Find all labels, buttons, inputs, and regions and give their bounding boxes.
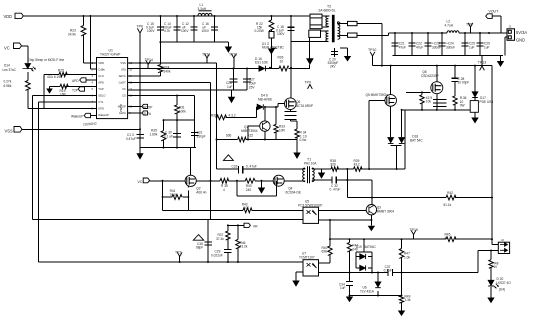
svg-text:1uF: 1uF <box>469 45 475 49</box>
svg-text:0.20W: 0.20W <box>255 29 264 33</box>
svg-text:VC: VC <box>4 46 10 51</box>
svg-text:0W: 0W <box>460 104 465 108</box>
svg-text:4: 4 <box>92 80 94 84</box>
svg-text:330uF: 330uF <box>446 45 455 49</box>
svg-text:PA2 10A: PA2 10A <box>304 161 317 165</box>
svg-text:1uF: 1uF <box>227 85 233 89</box>
svg-text:CS: CS <box>122 94 126 98</box>
svg-text:PDE US4: PDE US4 <box>480 100 494 104</box>
svg-text:MMBT 3904: MMBT 3904 <box>377 209 395 213</box>
svg-text:51.1k: 51.1k <box>443 203 451 207</box>
svg-text:100k: 100k <box>179 110 186 114</box>
svg-text:VC: VC <box>138 180 143 184</box>
svg-text:MB-AVDE: MB-AVDE <box>258 97 272 101</box>
svg-text:1.0k: 1.0k <box>404 255 410 259</box>
svg-text:100V: 100V <box>202 29 210 33</box>
svg-text:25V: 25V <box>249 86 256 90</box>
svg-text:698: 698 <box>322 250 328 254</box>
svg-text:BAT 54C: BAT 54C <box>410 138 423 142</box>
svg-text:TP15: TP15 <box>410 228 418 232</box>
svg-text:10: 10 <box>280 60 284 64</box>
svg-text:240: 240 <box>246 188 252 192</box>
svg-text:4.7k: 4.7k <box>164 29 170 33</box>
svg-text:TP10: TP10 <box>368 48 376 52</box>
svg-text:5: 5 <box>92 87 94 91</box>
svg-text:46.4: 46.4 <box>445 236 451 240</box>
svg-text:100: 100 <box>244 206 250 210</box>
svg-text:R25: R25 <box>58 69 64 73</box>
svg-text:GLPA: GLPA <box>143 112 152 116</box>
svg-text:820: 820 <box>331 163 337 167</box>
svg-text:GLPA: GLPA <box>119 111 126 115</box>
svg-text:21EBO42: 21EBO42 <box>83 122 97 127</box>
svg-text:CLO: CLO <box>98 74 104 78</box>
svg-text:5V/3A: 5V/3A <box>516 30 527 35</box>
svg-text:1uF: 1uF <box>484 45 490 49</box>
svg-text:14: 14 <box>129 74 132 78</box>
svg-text:MMBT3904: MMBT3904 <box>241 129 258 133</box>
svg-text:636: 636 <box>226 134 232 138</box>
svg-text:16: 16 <box>129 61 132 65</box>
svg-text:GND: GND <box>516 38 525 43</box>
svg-text:140k: 140k <box>164 70 171 74</box>
svg-text:37.4k: 37.4k <box>216 237 224 241</box>
svg-text:16B: 16B <box>60 92 66 96</box>
svg-text:PC3 57W21002F: PC3 57W21002F <box>298 203 323 207</box>
svg-text:Chip-Sleep or MOD-F line: Chip-Sleep or MOD-F line <box>28 58 65 62</box>
svg-text:TCMT1107: TCMT1107 <box>299 255 315 259</box>
svg-text:4 3.2: 4 3.2 <box>229 113 236 117</box>
svg-text:47uF: 47uF <box>416 45 423 49</box>
svg-text:15: 15 <box>129 67 132 71</box>
svg-text:76.8k: 76.8k <box>170 193 178 197</box>
svg-text:D19: D19 <box>356 245 362 249</box>
svg-text:X22: X22 <box>248 134 254 138</box>
svg-text:TP6: TP6 <box>137 25 143 29</box>
svg-text:MUR 460CT8C: MUR 460CT8C <box>262 46 284 50</box>
svg-text:WakeUP: WakeUP <box>71 115 83 119</box>
svg-text:TP8: TP8 <box>466 22 472 26</box>
svg-text:0.27k: 0.27k <box>4 80 12 84</box>
svg-text:UPD: UPD <box>98 107 104 111</box>
svg-text:43.k 6.19k: 43.k 6.19k <box>47 75 62 79</box>
svg-text:WakeUP: WakeUP <box>98 113 109 117</box>
svg-text:T2P: T2P <box>72 89 78 93</box>
svg-text:CaOT: CaOT <box>119 81 127 85</box>
svg-text:VR: VR <box>253 225 258 229</box>
svg-text:TP13: TP13 <box>478 61 486 65</box>
svg-text:24.9k: 24.9k <box>68 33 76 37</box>
svg-text:Les 37sC: Les 37sC <box>3 68 17 72</box>
svg-text:2kV: 2kV <box>330 65 336 69</box>
svg-text:1.69k: 1.69k <box>150 133 158 137</box>
svg-text:10 00pF: 10 00pF <box>458 81 470 85</box>
svg-text:VDD: VDD <box>98 61 104 65</box>
svg-text:J2: J2 <box>501 238 504 242</box>
svg-text:3.3uH: 3.3uH <box>198 7 207 11</box>
svg-text:100V: 100V <box>147 29 155 33</box>
svg-text:VOUT: VOUT <box>489 10 500 14</box>
svg-text:J1: J1 <box>509 25 512 29</box>
svg-text:VSS: VSS <box>120 61 126 65</box>
svg-text:MCOP: MCOP <box>143 105 153 109</box>
svg-text:0.1 uF: 0.1 uF <box>164 134 173 138</box>
svg-text:TP9: TP9 <box>305 81 311 85</box>
svg-text:CdBv: CdBv <box>98 68 105 72</box>
svg-text:VDD: VDD <box>4 14 13 19</box>
svg-text:68pF: 68pF <box>196 246 203 250</box>
svg-text:43.2k: 43.2k <box>240 245 248 249</box>
svg-text:12: 12 <box>129 87 132 91</box>
svg-text:10: 10 <box>129 104 132 108</box>
svg-text:AETin: AETin <box>119 74 127 78</box>
svg-text:C33: C33 <box>232 164 238 168</box>
svg-text:4: 4 <box>223 188 225 192</box>
svg-text:VC: VC <box>122 87 126 91</box>
svg-text:TP14: TP14 <box>145 58 153 62</box>
svg-text:VSS: VSS <box>5 129 13 134</box>
svg-text:R3D: R3D <box>211 113 218 117</box>
svg-text:47uF: 47uF <box>399 45 406 49</box>
svg-text:STa: STa <box>121 68 126 72</box>
svg-text:0. 47uF: 0. 47uF <box>246 164 257 168</box>
svg-text:APD: APD <box>98 81 104 85</box>
svg-text:2A-6890-DL: 2A-6890-DL <box>319 9 336 13</box>
svg-text:10R: 10R <box>279 128 286 132</box>
svg-text:330uF: 330uF <box>432 45 441 49</box>
svg-text:TP12: TP12 <box>229 53 237 57</box>
svg-text:Q5 MMKT39Oa: Q5 MMKT39Oa <box>366 93 389 97</box>
svg-text:BCTA 6R0P: BCTA 6R0P <box>296 104 313 108</box>
svg-text:TCP: TCP <box>98 87 104 91</box>
svg-text:0. 47uF: 0. 47uF <box>330 188 341 192</box>
svg-text:CSD42230P: CSD42230P <box>421 74 439 78</box>
svg-text:MCOP: MCOP <box>118 105 126 109</box>
svg-text:ES1 10B: ES1 10B <box>255 61 268 65</box>
svg-text:(D4): (D4) <box>499 288 505 292</box>
svg-text:R42: R42 <box>447 191 453 195</box>
svg-text:0.1uF: 0.1uF <box>384 269 392 273</box>
svg-text:0.47uF: 0.47uF <box>126 137 136 141</box>
svg-text:13: 13 <box>129 80 132 84</box>
svg-text:6CD04-DE: 6CD04-DE <box>286 190 301 194</box>
svg-text:43.2: 43.2 <box>354 163 360 167</box>
svg-text:APD: APD <box>72 79 79 83</box>
svg-text:TLV 431A: TLV 431A <box>360 289 375 293</box>
svg-text:BAT54C: BAT54C <box>364 245 377 249</box>
svg-text:10: 10 <box>494 265 498 269</box>
svg-text:6.98k: 6.98k <box>4 84 12 88</box>
svg-text:1uF: 1uF <box>340 286 346 290</box>
svg-text:A06 4n: A06 4n <box>196 190 206 194</box>
svg-text:10k: 10k <box>426 100 432 104</box>
svg-text:TP2: TP2 <box>175 250 181 254</box>
svg-text:100V: 100V <box>277 32 285 36</box>
svg-text:330pF: 330pF <box>197 134 206 138</box>
svg-text:TH227 IGPwP: TH227 IGPwP <box>100 53 120 57</box>
svg-text:100V: 100V <box>181 29 189 33</box>
svg-text:D14: D14 <box>4 64 10 68</box>
svg-text:1.3k: 1.3k <box>405 298 411 302</box>
svg-text:TP11: TP11 <box>202 53 210 57</box>
svg-text:LXS37 4O: LXS37 4O <box>496 281 511 285</box>
svg-text:SELO: SELO <box>98 94 105 98</box>
svg-text:CTL: CTL <box>98 100 104 104</box>
svg-text:4.7uH: 4.7uH <box>445 23 454 27</box>
svg-text:0.022uF: 0.022uF <box>211 253 223 257</box>
svg-text:0.0w: 0.0w <box>300 138 307 142</box>
